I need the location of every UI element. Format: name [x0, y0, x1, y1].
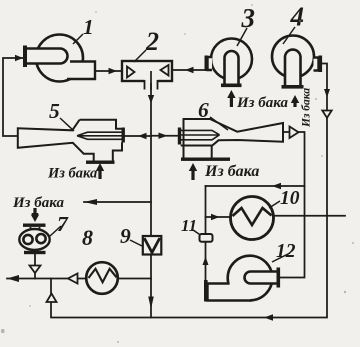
svg-text:1: 1: [83, 15, 94, 39]
svg-text:9: 9: [120, 224, 131, 248]
svg-text:12: 12: [276, 241, 296, 262]
svg-text:Из бака: Из бака: [204, 163, 259, 180]
svg-text:10: 10: [280, 188, 300, 209]
svg-text:8: 8: [82, 225, 93, 250]
svg-text:3: 3: [241, 3, 256, 33]
svg-text:Из бака: Из бака: [301, 88, 313, 128]
svg-text:7: 7: [57, 212, 69, 236]
svg-text:Из бака: Из бака: [236, 95, 288, 111]
svg-text:11: 11: [181, 216, 197, 235]
svg-text:6: 6: [198, 98, 209, 122]
svg-text:2: 2: [145, 27, 159, 56]
svg-text:4: 4: [290, 2, 305, 32]
svg-text:Из бака: Из бака: [12, 195, 64, 211]
svg-text:5: 5: [49, 99, 60, 123]
svg-text:Из бака: Из бака: [47, 166, 97, 182]
